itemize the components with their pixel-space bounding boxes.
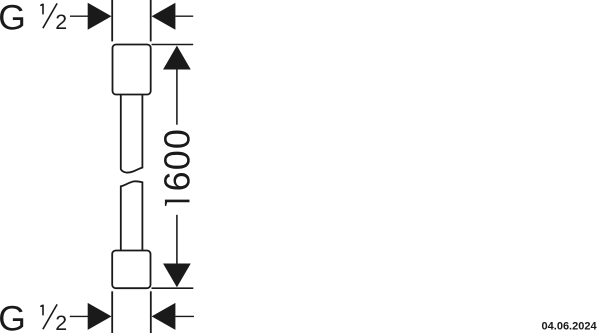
dimension arrow pointing right at bottom-left thread [88, 303, 112, 330]
vertical dimension line 1600 (upper segment) [176, 47, 178, 125]
hose lower segment with break [121, 181, 143, 250]
svg-text:G: G [0, 298, 26, 333]
thread label G 1/2 (top) [0, 0, 67, 37]
svg-text:600: 600 [157, 128, 198, 191]
dimension text 1600 [165, 200, 190, 207]
dimension leader line right (bottom) [175, 315, 194, 317]
dimension arrow pointing left at bottom-right thread [152, 303, 176, 330]
svg-text:G: G [0, 0, 26, 37]
dimension arrow pointing left at top-right thread [152, 3, 176, 30]
dimension leader line left (bottom) [70, 315, 88, 317]
bottom connector pipe [112, 291, 151, 333]
thread label G 1/2 (bottom) [0, 298, 67, 333]
hose upper segment with break [121, 95, 143, 173]
dimension arrow pointing right at top-left thread [88, 3, 112, 30]
dimension arrow pointing up (1600 top) [163, 46, 191, 70]
extension line from bottom nut to dimension (bottom datum) [152, 287, 194, 289]
top hose nut [113, 45, 151, 95]
extension line from top nut to dimension (top datum) [152, 44, 194, 46]
dimension leader line right (top) [175, 15, 193, 17]
svg-text:04.06.2024: 04.06.2024 [542, 320, 598, 332]
dimension leader line left (top) [70, 15, 88, 17]
top connector pipe [112, 0, 151, 41]
svg-text:2: 2 [55, 10, 67, 34]
vertical dimension line 1600 (lower segment) [176, 215, 178, 286]
bottom hose nut [112, 251, 150, 289]
svg-text:2: 2 [55, 311, 67, 333]
dimension arrow pointing down (1600 bottom) [163, 264, 191, 288]
